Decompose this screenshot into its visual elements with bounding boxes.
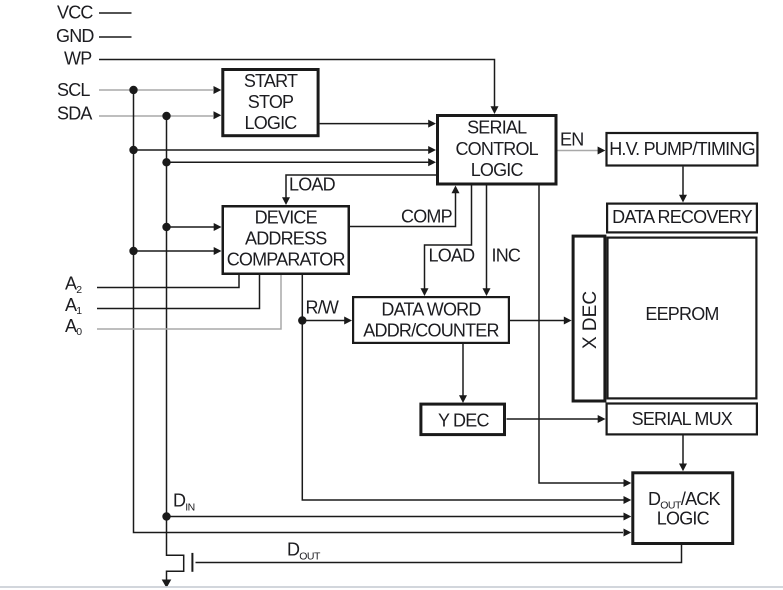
svg-text:SCL: SCL: [57, 80, 90, 100]
svg-text:DATA WORD: DATA WORD: [381, 300, 481, 320]
svg-text:X DEC: X DEC: [580, 291, 601, 349]
svg-text:LOGIC: LOGIC: [657, 509, 710, 529]
svg-text:ADDR/COUNTER: ADDR/COUNTER: [363, 321, 499, 341]
svg-text:COMPARATOR: COMPARATOR: [227, 250, 346, 270]
svg-text:EN: EN: [560, 130, 583, 150]
svg-text:DATA RECOVERY: DATA RECOVERY: [612, 207, 752, 227]
svg-text:DEVICE: DEVICE: [255, 208, 318, 228]
svg-text:R/W: R/W: [306, 297, 339, 317]
svg-text:LOGIC: LOGIC: [244, 113, 297, 133]
svg-text:SERIAL MUX: SERIAL MUX: [632, 409, 733, 429]
svg-text:LOAD: LOAD: [289, 175, 336, 195]
svg-text:LOGIC: LOGIC: [471, 160, 524, 180]
svg-text:VCC: VCC: [57, 2, 93, 22]
svg-text:SERIAL: SERIAL: [467, 117, 527, 137]
svg-text:COMP: COMP: [401, 207, 453, 227]
svg-text:LOAD: LOAD: [429, 246, 476, 266]
svg-text:ADDRESS: ADDRESS: [245, 229, 327, 249]
svg-text:Y DEC: Y DEC: [438, 410, 489, 430]
svg-text:H.V. PUMP/TIMING: H.V. PUMP/TIMING: [609, 139, 755, 159]
svg-text:SDA: SDA: [57, 104, 92, 124]
svg-text:INC: INC: [492, 246, 521, 266]
svg-text:CONTROL: CONTROL: [455, 139, 538, 159]
svg-text:STOP: STOP: [248, 92, 294, 112]
svg-text:EEPROM: EEPROM: [645, 304, 718, 324]
svg-text:WP: WP: [64, 48, 92, 68]
svg-text:START: START: [244, 71, 298, 91]
svg-text:GND: GND: [56, 26, 94, 46]
